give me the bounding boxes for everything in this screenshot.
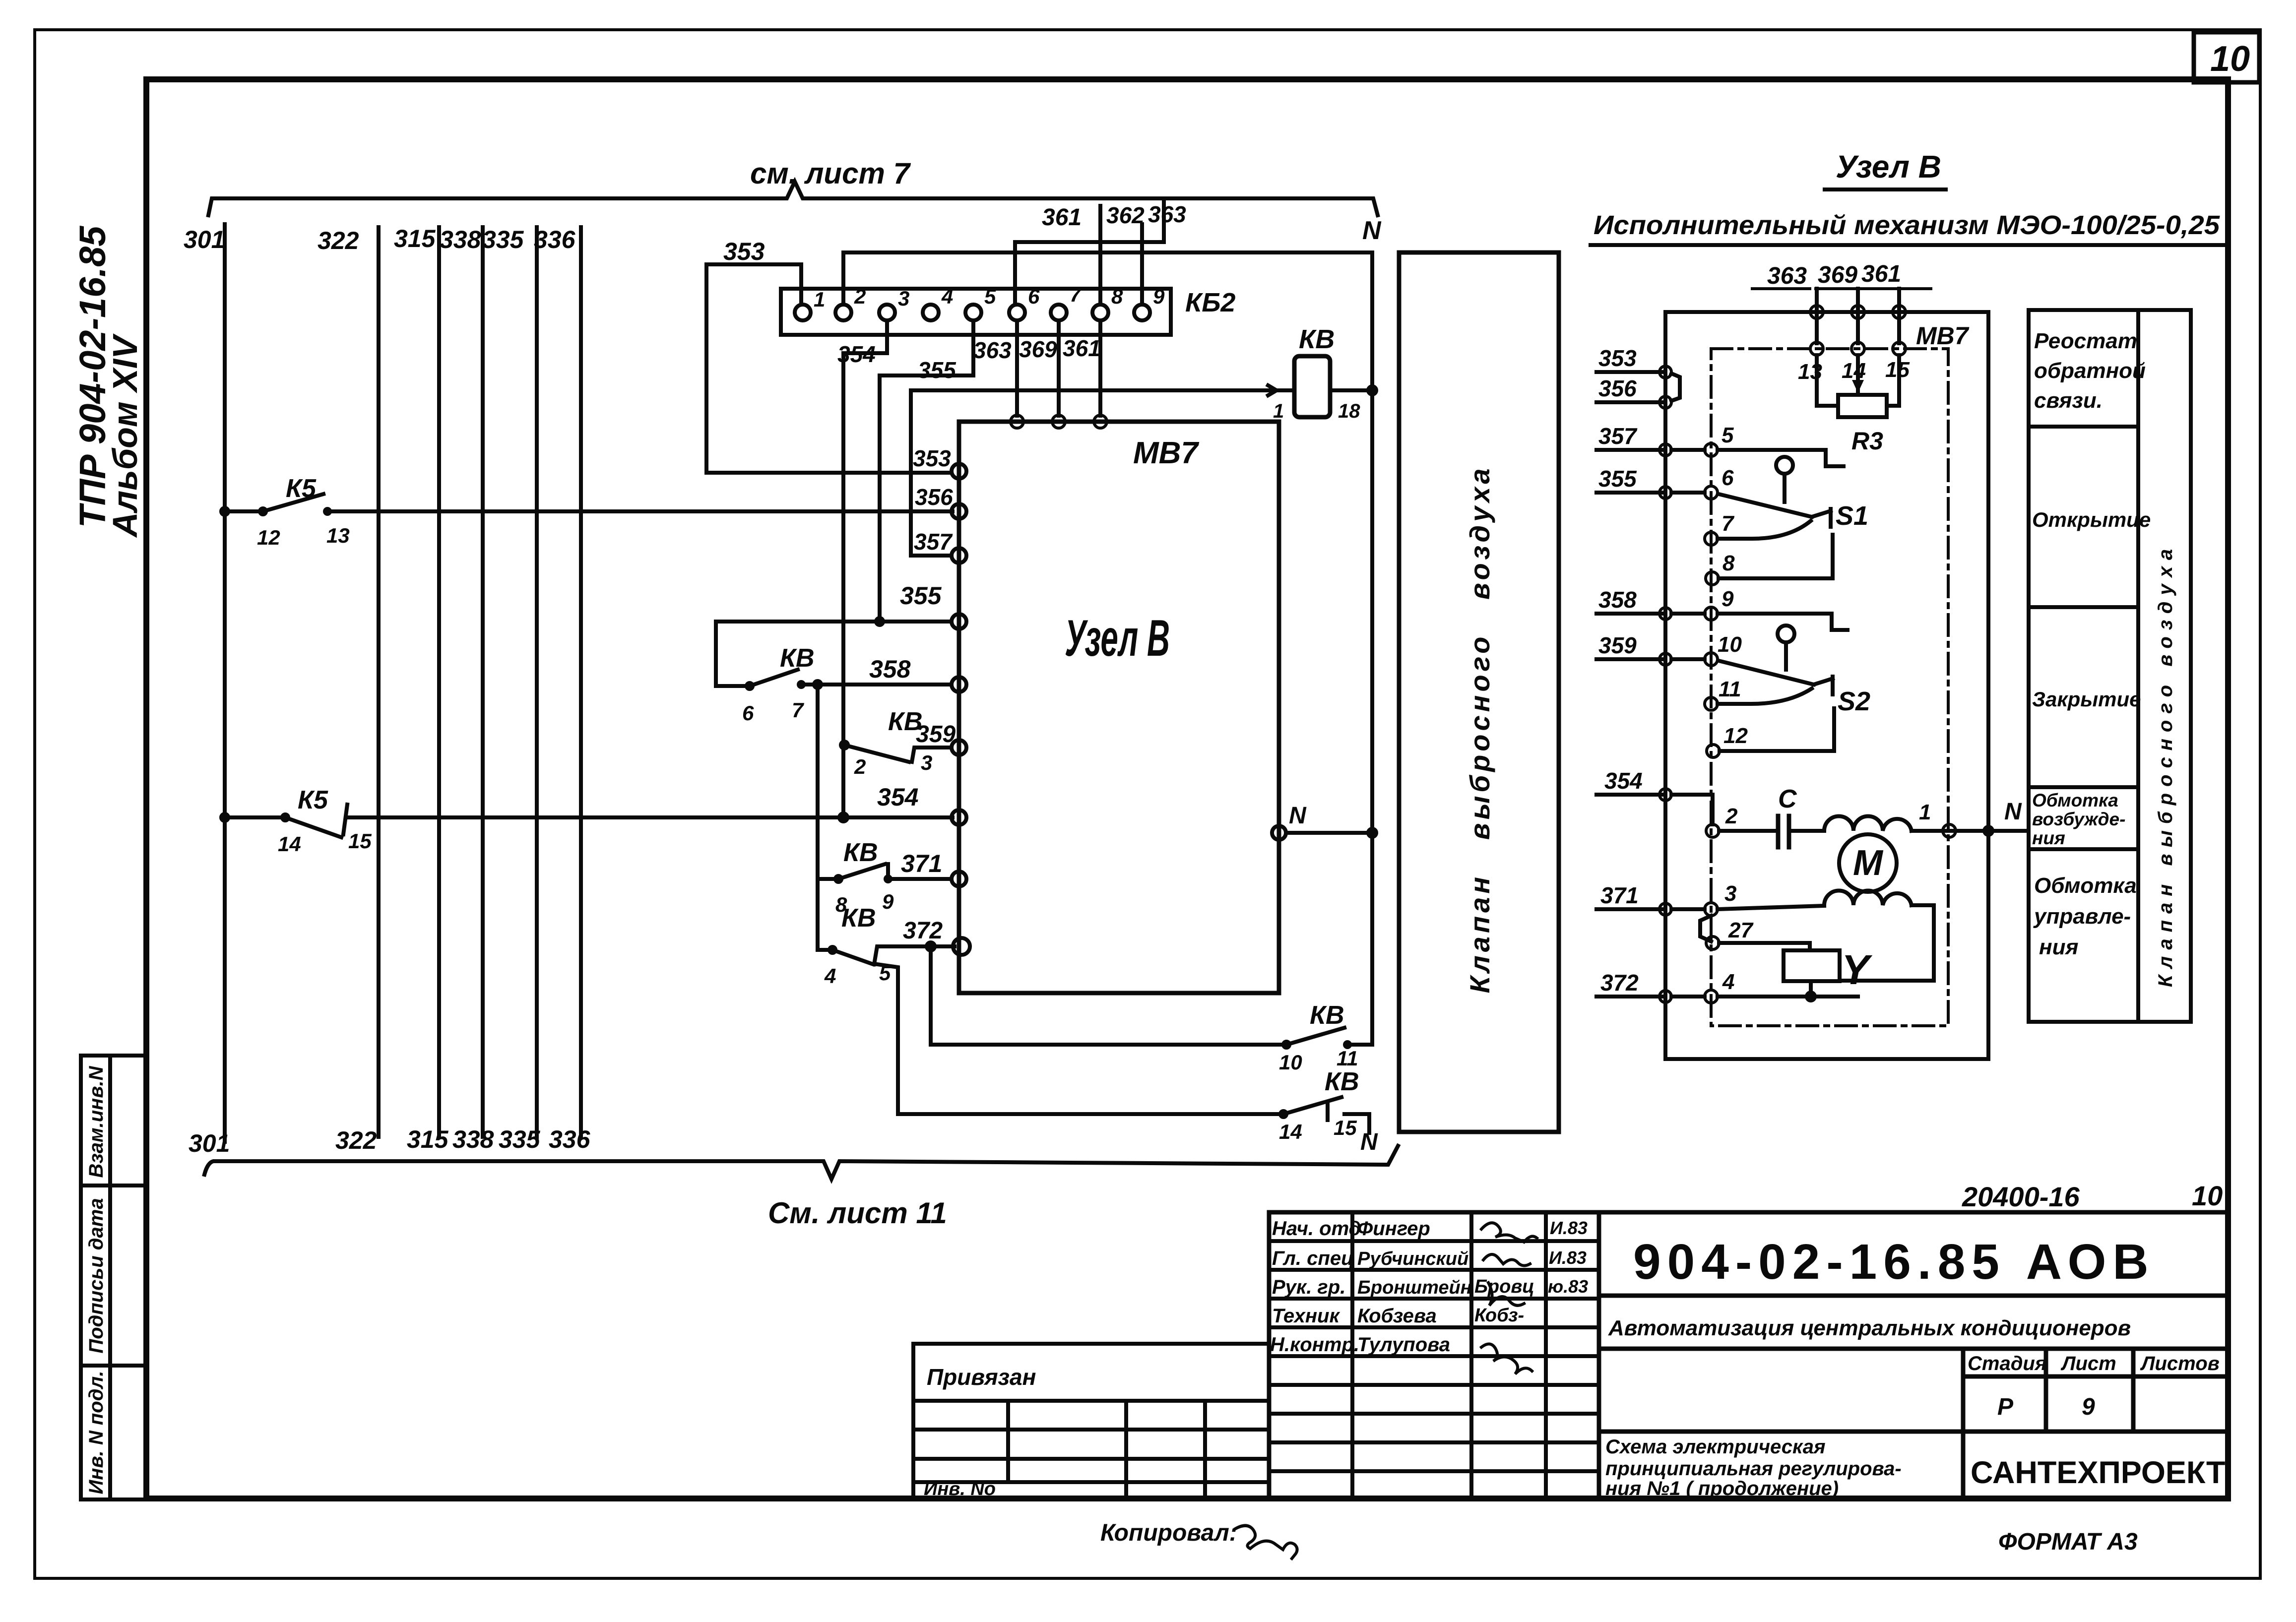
svg-text:МВ7: МВ7 [1916, 322, 1970, 350]
svg-text:7: 7 [1722, 511, 1735, 536]
svg-text:372: 372 [1600, 970, 1639, 996]
svg-text:361: 361 [1063, 335, 1101, 361]
svg-text:ния: ния [2032, 828, 2065, 848]
svg-text:КВ: КВ [1325, 1067, 1359, 1096]
svg-text:ФОРМАТ А3: ФОРМАТ А3 [1998, 1529, 2138, 1555]
wire to terminal 1 and N [1912, 827, 2027, 835]
legend table (right) [2029, 310, 2191, 1022]
wire 355 (KB2:5 feeder) [716, 320, 973, 625]
bus wire 322 [377, 227, 381, 1137]
svg-text:Автоматизация центральных ко: Автоматизация центральных кондиционеров [1608, 1316, 2131, 1340]
svg-text:322: 322 [318, 227, 359, 254]
svg-text:354: 354 [1604, 768, 1643, 794]
MB7 terminal 6 and switch S1 arm [1671, 493, 1812, 517]
bus wire 315 [437, 227, 441, 1137]
svg-text:2: 2 [1725, 804, 1738, 828]
node Uzel V box MB7 [959, 422, 1279, 993]
svg-text:1: 1 [814, 288, 825, 311]
svg-text:Инв. No: Инв. No [924, 1479, 996, 1499]
wire 354 (KB2:3 feeder) [839, 320, 887, 821]
svg-text:ю.83: ю.83 [1548, 1276, 1588, 1297]
svg-text:18: 18 [1338, 400, 1360, 422]
actuator input 371 [1596, 907, 1665, 911]
inner drawing frame [146, 79, 2228, 1498]
svg-text:R3: R3 [1851, 427, 1883, 455]
svg-text:N: N [1360, 1129, 1378, 1155]
S1 fixed contact [1812, 509, 1831, 527]
contact KV (14-15) [877, 964, 1369, 1133]
MB7 terminal 5 and wire [1671, 450, 1844, 466]
MB7 terminal 10 and switch S2 arm [1671, 659, 1814, 685]
svg-text:315: 315 [394, 225, 436, 252]
legend Обмотка управления [2033, 873, 2137, 959]
svg-text:КВ: КВ [841, 904, 876, 933]
svg-text:353: 353 [1598, 345, 1637, 371]
svg-text:Y: Y [1842, 946, 1873, 993]
wire 357 (KV coil to MB7:357) [911, 390, 952, 556]
actuator input 359 [1596, 657, 1665, 661]
junction 369 on box top [1052, 320, 1065, 428]
MB7 terminal 356 [952, 504, 966, 519]
svg-text:Нач. отд: Нач. отд [1272, 1218, 1361, 1240]
svg-text:связи.: связи. [2034, 388, 2103, 413]
svg-text:1: 1 [1273, 400, 1284, 422]
actuator input 372 [1596, 995, 1665, 998]
wire N (KB2:2 riser and N bus) [843, 252, 1372, 1045]
svg-text:4: 4 [941, 285, 953, 308]
svg-text:9: 9 [1722, 587, 1734, 611]
svg-text:20400-16: 20400-16 [1962, 1181, 2080, 1212]
svg-text:ния №1 ( продолжение): ния №1 ( продолжение) [1605, 1478, 1839, 1499]
svg-text:363: 363 [1148, 201, 1186, 227]
svg-text:КВ: КВ [1310, 1001, 1344, 1030]
svg-text:9: 9 [882, 890, 894, 913]
svg-text:принципиальная регулирова-: принципиальная регулирова- [1605, 1458, 1902, 1480]
svg-text:Взам.инв.N: Взам.инв.N [85, 1065, 107, 1178]
svg-text:369: 369 [1818, 262, 1857, 288]
svg-text:356: 356 [915, 484, 953, 510]
svg-text:15: 15 [1334, 1116, 1357, 1139]
S1 plunger [1776, 457, 1793, 502]
svg-text:Копировал:: Копировал: [1100, 1520, 1237, 1546]
title block grid [1269, 1212, 2228, 1498]
MB7 terminal 353 [952, 464, 966, 479]
legend Обмотка возбуждения [2032, 790, 2125, 848]
svg-text:335: 335 [499, 1125, 541, 1153]
svg-text:359: 359 [916, 721, 956, 748]
svg-text:Рук. гр.: Рук. гр. [1272, 1276, 1345, 1298]
svg-text:2: 2 [854, 285, 866, 308]
svg-text:М: М [1853, 843, 1884, 883]
staff row Техник Кобзева [1272, 1305, 1524, 1327]
svg-text:N: N [1362, 216, 1382, 245]
MB7 terminal 371 [952, 872, 966, 886]
MB7 terminal 7 and wire [1718, 521, 1811, 539]
MB7 dash-dot boundary [1711, 349, 1948, 1026]
svg-text:8: 8 [1722, 551, 1735, 575]
svg-text:3: 3 [1724, 881, 1736, 906]
svg-text:Узел В: Узел В [1836, 149, 1941, 185]
svg-text:КВ: КВ [1299, 324, 1335, 354]
legend Реостат обратной связи [2034, 329, 2146, 413]
svg-text:359: 359 [1598, 632, 1637, 658]
actuator input 358 [1596, 612, 1665, 616]
bus wire 336 [579, 227, 583, 1137]
bus wire 338 [481, 227, 485, 1137]
svg-text:Альбом XIV: Альбом XIV [106, 333, 144, 538]
svg-text:14: 14 [278, 832, 301, 856]
svg-text:315: 315 [407, 1125, 449, 1153]
svg-text:КБ2: КБ2 [1185, 288, 1235, 317]
contact KV (8-9) wire 371 [818, 864, 952, 882]
svg-text:355: 355 [900, 582, 942, 610]
MB7 terminal 27 and wire [1719, 943, 1810, 950]
svg-text:4: 4 [824, 964, 836, 988]
svg-text:355: 355 [918, 357, 957, 383]
svg-text:см. лист 7: см. лист 7 [750, 157, 911, 190]
svg-text:6: 6 [1028, 285, 1040, 308]
svg-text:И.83: И.83 [1550, 1218, 1588, 1238]
svg-text:354: 354 [837, 341, 876, 367]
svg-text:Лист: Лист [2060, 1353, 2116, 1374]
svg-text:К5: К5 [286, 474, 317, 503]
MB7 terminal 354 [952, 810, 966, 825]
contact KV (2-3) wire 359 [814, 681, 952, 879]
svg-text:Листов: Листов [2140, 1353, 2220, 1374]
svg-text:353: 353 [723, 238, 765, 265]
staff row Н.контр. Тулупова [1270, 1334, 1450, 1356]
bus wire 335 [535, 227, 539, 1137]
rheostat R3 [1817, 355, 1899, 417]
svg-text:357: 357 [1598, 423, 1638, 449]
svg-text:9: 9 [2082, 1394, 2095, 1420]
svg-text:S1: S1 [1836, 501, 1868, 531]
svg-text:301: 301 [189, 1129, 230, 1157]
S2 plunger [1778, 625, 1794, 670]
actuator input 354 [1596, 793, 1665, 797]
svg-text:12: 12 [1723, 724, 1748, 748]
svg-text:353: 353 [913, 445, 951, 471]
svg-text:управле-: управле- [2033, 904, 2131, 929]
actuator input 353 [1596, 370, 1665, 374]
svg-text:12: 12 [257, 526, 280, 549]
MB7 terminal 358 [952, 677, 966, 692]
junction 361 on box top [1094, 320, 1107, 428]
terminal block KB2 [781, 289, 1171, 335]
motor M [1839, 834, 1897, 892]
svg-text:Кобз-: Кобз- [1474, 1305, 1524, 1326]
svg-text:369: 369 [1019, 336, 1057, 362]
svg-text:14: 14 [1842, 359, 1866, 383]
actuator input 357 [1596, 448, 1665, 452]
svg-text:5: 5 [1722, 423, 1734, 447]
svg-text:362: 362 [1106, 202, 1145, 228]
svg-text:ния: ния [2039, 935, 2078, 959]
sheet number box 10 (top right) [2194, 32, 2259, 82]
svg-text:Обмотка: Обмотка [2034, 873, 2137, 898]
svg-text:Тулупова: Тулупова [1357, 1334, 1450, 1356]
svg-text:Стадия: Стадия [1968, 1353, 2046, 1374]
svg-text:Схема электрическая: Схема электрическая [1605, 1436, 1826, 1458]
svg-text:13: 13 [326, 524, 350, 547]
svg-text:Бронштейн: Бронштейн [1357, 1277, 1472, 1298]
svg-text:7: 7 [792, 698, 804, 722]
control winding return loop [1842, 905, 1934, 981]
staff row Рук.гр. Бронштейн [1272, 1276, 1588, 1298]
svg-text:Н.контр.: Н.контр. [1270, 1334, 1359, 1356]
staff row Гл.спец Рубчинский [1272, 1248, 1587, 1269]
svg-text:Подписьи дата: Подписьи дата [85, 1198, 107, 1353]
svg-text:358: 358 [1598, 587, 1637, 613]
svg-text:338: 338 [452, 1125, 494, 1153]
svg-text:Реостат: Реостат [2034, 329, 2137, 353]
see sheet 7 bracket [208, 182, 1378, 215]
svg-text:N: N [1289, 803, 1307, 829]
contact KV (4-5) wire 372 [818, 879, 955, 964]
MB7 terminal 357 [952, 548, 966, 563]
svg-text:15: 15 [348, 829, 372, 853]
svg-text:6: 6 [742, 701, 754, 725]
svg-text:336: 336 [549, 1125, 591, 1153]
actuator input 356 [1596, 400, 1665, 404]
MB7 terminal 9 and wire [1671, 614, 1848, 630]
svg-text:355: 355 [1598, 466, 1637, 492]
svg-text:5: 5 [984, 285, 996, 308]
svg-text:Инв. N подл.: Инв. N подл. [85, 1371, 107, 1495]
MB7 terminal 3 and wire [1671, 906, 1824, 909]
svg-text:Кобзева: Кобзева [1357, 1305, 1437, 1327]
svg-text:10: 10 [1279, 1051, 1302, 1074]
MB7 terminal 4 and wire [1671, 995, 1858, 998]
svg-text:10: 10 [1718, 632, 1742, 657]
control winding coil [1824, 891, 1912, 906]
exhaust air valve box [1399, 252, 1559, 1132]
svg-text:МВ7: МВ7 [1133, 436, 1199, 470]
svg-text:Р: Р [1997, 1394, 2014, 1420]
see sheet 11 bracket [204, 1146, 1398, 1179]
bus wire 301 [223, 224, 227, 1142]
svg-text:7: 7 [1070, 283, 1082, 306]
svg-text:возбужде-: возбужде- [2032, 809, 2125, 829]
svg-text:Исполнительный механизм МЭО-: Исполнительный механизм МЭО-100/25-0,25 [1594, 210, 2220, 240]
svg-text:11: 11 [1337, 1047, 1358, 1070]
svg-text:363: 363 [1767, 263, 1807, 289]
svg-text:S2: S2 [1838, 686, 1870, 716]
svg-text:361: 361 [1042, 204, 1082, 231]
svg-text:356: 356 [1598, 375, 1637, 401]
svg-text:Обмотка: Обмотка [2032, 790, 2118, 811]
svg-text:N: N [2004, 799, 2022, 825]
link 353-356 [1671, 374, 1680, 401]
contact KV (10-11) [931, 946, 1372, 1048]
svg-text:322: 322 [335, 1126, 377, 1154]
svg-text:обратной: обратной [2034, 359, 2146, 383]
svg-text:335: 335 [482, 226, 524, 253]
MB7 terminal 355 [952, 614, 966, 629]
svg-text:Техник: Техник [1272, 1305, 1340, 1327]
svg-text:3: 3 [898, 287, 909, 310]
left margin stamp table [81, 1056, 146, 1499]
S2 fixed contact [1814, 677, 1833, 694]
svg-text:358: 358 [869, 655, 911, 683]
field winding coil [1824, 816, 1912, 831]
svg-text:6: 6 [1722, 466, 1734, 490]
svg-text:КВ: КВ [780, 644, 815, 673]
contact K5 (12-13) [221, 494, 953, 515]
svg-text:14: 14 [1279, 1120, 1302, 1143]
svg-text:И.83: И.83 [1549, 1248, 1587, 1268]
svg-text:2: 2 [854, 755, 866, 778]
binding table Привязан [913, 1344, 1269, 1498]
capacitor C [1719, 829, 1774, 833]
svg-text:336: 336 [534, 226, 576, 253]
svg-text:Бровц: Бровц [1474, 1276, 1534, 1297]
signatures scribbles [1481, 1223, 1537, 1374]
contact KV (6-7) [716, 622, 952, 689]
svg-text:371: 371 [901, 850, 942, 877]
svg-text:3: 3 [921, 751, 932, 774]
terminals 13 14 15 [1810, 342, 1823, 355]
svg-text:27: 27 [1728, 918, 1754, 942]
junction 363 on box top [1011, 320, 1023, 428]
svg-text:Узел В: Узел В [1065, 610, 1170, 667]
svg-text:САНТЕХПРОЕКТ: САНТЕХПРОЕКТ [1971, 1455, 2225, 1490]
header Стадия Лист Листов [1968, 1353, 2220, 1420]
svg-text:Открытие: Открытие [2032, 508, 2151, 531]
svg-text:4: 4 [1722, 970, 1734, 994]
wire N to MB7 terminal [1272, 826, 1286, 840]
MB7 terminal 8 and wire [1719, 535, 1833, 578]
svg-text:357: 357 [914, 529, 953, 555]
svg-text:Фингер: Фингер [1357, 1218, 1430, 1240]
svg-text:8: 8 [1111, 285, 1123, 308]
junction circles on actuator top [1810, 306, 1823, 318]
solenoid Y [1784, 950, 1840, 1000]
relay coil KV [1294, 356, 1330, 417]
svg-text:См. лист 11: См. лист 11 [768, 1196, 947, 1230]
svg-text:9: 9 [1153, 285, 1165, 308]
contact K5 (14-15) [221, 805, 953, 837]
svg-text:301: 301 [184, 226, 225, 253]
svg-text:10: 10 [2192, 1180, 2223, 1211]
svg-text:363: 363 [973, 337, 1012, 363]
MB7 terminal 372 [953, 938, 970, 955]
svg-text:10: 10 [2210, 39, 2250, 79]
wires 361 362 363 entering KB2 from sheet 7 [1015, 199, 1164, 305]
MB7 terminal 12 and wire [1720, 708, 1834, 751]
svg-text:КВ: КВ [843, 838, 878, 867]
svg-text:К5: К5 [298, 786, 328, 814]
svg-text:Гл. спец: Гл. спец [1272, 1248, 1354, 1269]
svg-text:C: C [1778, 785, 1797, 813]
svg-text:354: 354 [877, 783, 918, 811]
svg-text:Рубчинский: Рубчинский [1357, 1248, 1468, 1269]
wire 353 (KB2:1 to MB7:353) [706, 264, 952, 473]
svg-text:371: 371 [1600, 882, 1639, 908]
actuator input 355 [1596, 491, 1665, 495]
svg-text:372: 372 [903, 918, 943, 944]
actuator outer box [1665, 312, 1988, 1059]
link 3-27 [1700, 916, 1711, 941]
staff row Нач.отд Фингер [1272, 1218, 1588, 1240]
svg-text:904-02-16.85 АОВ: 904-02-16.85 АОВ [1633, 1234, 2155, 1290]
svg-text:Клапан выбросного воздуха: Клапан выбросного воздуха [1464, 465, 1495, 993]
MB7 terminal 11 and wire [1718, 688, 1812, 704]
svg-text:11: 11 [1719, 677, 1741, 701]
MB7 terminal 359 [952, 740, 966, 755]
svg-text:Клапан выбросного воздуха: Клапан выбросного воздуха [2155, 543, 2176, 987]
svg-text:1: 1 [1919, 800, 1931, 824]
drawing title Схема электрическая принципиальная [1605, 1436, 1902, 1499]
MB7 terminal 2 feed from 354 [1671, 795, 1713, 824]
svg-text:Закрытие: Закрытие [2032, 687, 2141, 711]
svg-text:Привязан: Привязан [927, 1364, 1036, 1390]
svg-text:338: 338 [440, 226, 481, 253]
svg-text:361: 361 [1861, 261, 1901, 287]
